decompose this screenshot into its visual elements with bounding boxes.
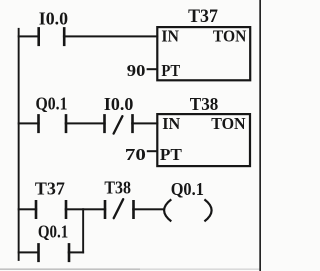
svg-text:T38: T38 — [104, 178, 131, 198]
svg-text:PT: PT — [160, 145, 183, 164]
svg-text:Q0.1: Q0.1 — [38, 222, 68, 242]
svg-text:T37: T37 — [188, 7, 218, 27]
svg-text:Q0.1: Q0.1 — [36, 93, 68, 113]
svg-text:I0.0: I0.0 — [39, 9, 68, 29]
svg-text:T38: T38 — [190, 94, 219, 114]
svg-text:Q0.1: Q0.1 — [171, 179, 204, 199]
svg-text:PT: PT — [161, 61, 180, 80]
svg-text:TON: TON — [213, 27, 247, 46]
svg-text:70: 70 — [125, 145, 146, 164]
svg-text:I0.0: I0.0 — [104, 94, 134, 114]
svg-text:90: 90 — [127, 61, 146, 80]
svg-text:IN: IN — [161, 27, 179, 46]
svg-text:T37: T37 — [35, 179, 65, 199]
svg-text:IN: IN — [162, 114, 181, 133]
svg-text:TON: TON — [211, 114, 246, 133]
